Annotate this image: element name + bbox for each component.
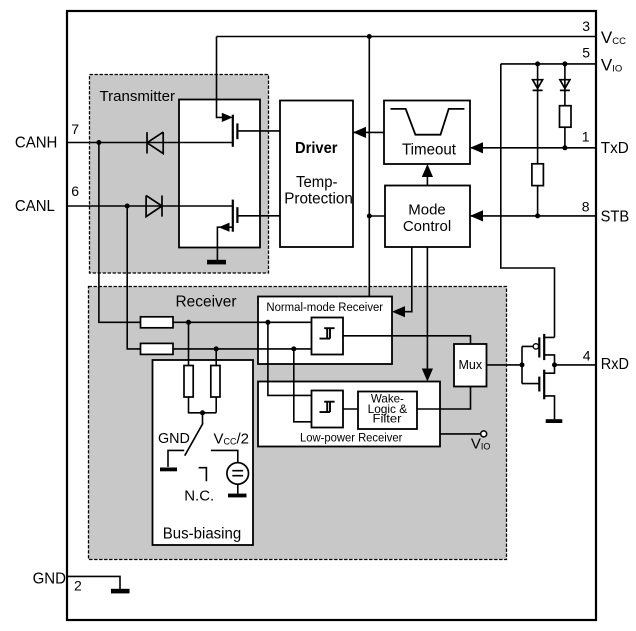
svg-text:Temp-: Temp- xyxy=(296,174,338,191)
svg-text:Mode: Mode xyxy=(408,202,446,219)
svg-text:Filter: Filter xyxy=(373,412,402,426)
svg-text:CANH: CANH xyxy=(15,135,58,152)
svg-text:Bus-biasing: Bus-biasing xyxy=(163,526,241,543)
svg-text:Low-power Receiver: Low-power Receiver xyxy=(300,431,402,445)
svg-text:Protection: Protection xyxy=(284,191,353,208)
svg-text:2: 2 xyxy=(74,578,82,594)
svg-text:Receiver: Receiver xyxy=(176,294,237,311)
svg-text:Driver: Driver xyxy=(295,140,338,157)
svg-text:RxD: RxD xyxy=(601,356,629,373)
svg-text:Mux: Mux xyxy=(458,358,482,372)
svg-text:Timeout: Timeout xyxy=(402,142,457,159)
svg-text:CANL: CANL xyxy=(15,198,55,215)
svg-text:Normal-mode Receiver: Normal-mode Receiver xyxy=(266,300,383,314)
svg-text:6: 6 xyxy=(71,183,79,199)
svg-text:5: 5 xyxy=(582,45,590,61)
svg-text:8: 8 xyxy=(582,199,590,215)
svg-text:3: 3 xyxy=(582,18,590,34)
svg-text:Control: Control xyxy=(403,218,451,235)
svg-text:GND: GND xyxy=(33,571,66,588)
svg-text:4: 4 xyxy=(583,348,591,364)
svg-text:7: 7 xyxy=(71,121,79,137)
svg-text:1: 1 xyxy=(582,129,590,145)
svg-text:TxD: TxD xyxy=(601,140,629,157)
svg-text:N.C.: N.C. xyxy=(184,488,214,505)
svg-text:Transmitter: Transmitter xyxy=(100,88,176,105)
svg-text:GND: GND xyxy=(158,430,190,447)
svg-text:STB: STB xyxy=(601,209,630,226)
